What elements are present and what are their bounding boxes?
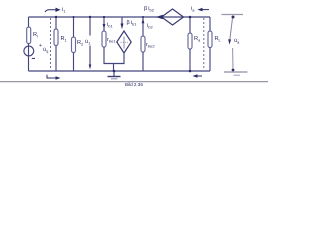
svg-text:Ri: Ri: [33, 32, 38, 39]
svg-text:i1: i1: [62, 7, 66, 14]
svg-text:R1: R1: [61, 36, 68, 43]
svg-text:rbe1: rbe1: [107, 37, 116, 44]
svg-text:Bild 2.36: Bild 2.36: [125, 82, 143, 86]
svg-text:u̇a: u̇a: [234, 38, 240, 45]
svg-text:RL: RL: [215, 36, 222, 43]
svg-text:ia: ia: [191, 6, 195, 13]
svg-text:βib2: βib2: [144, 6, 155, 13]
svg-text:u̇1: u̇1: [85, 39, 91, 46]
svg-text:+: +: [39, 43, 42, 49]
svg-text:βib1: βib1: [127, 20, 138, 27]
svg-text:u̇q: u̇q: [43, 47, 48, 54]
svg-text:rbe2: rbe2: [146, 42, 155, 49]
svg-text:R2: R2: [77, 40, 84, 47]
svg-text:Ra: Ra: [194, 36, 201, 43]
svg-text:ib1: ib1: [107, 22, 113, 29]
svg-text:ib2: ib2: [147, 23, 153, 30]
